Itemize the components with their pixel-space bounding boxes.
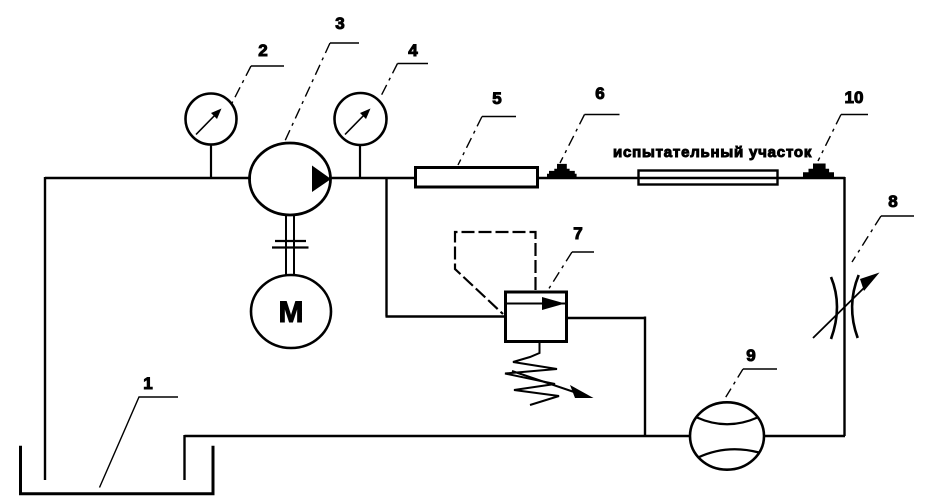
svg-text:6: 6	[595, 84, 604, 103]
svg-text:3: 3	[335, 14, 344, 33]
wire: return pipe into tank	[183, 435, 185, 480]
motor M	[251, 275, 331, 348]
svg-text:M: M	[279, 296, 304, 329]
flow meter 9	[690, 402, 764, 469]
node label 9	[724, 346, 777, 400]
node label 6	[560, 84, 620, 163]
wire: relief valve inlet	[386, 315, 505, 317]
node label 5	[458, 89, 516, 165]
wire: bottom return line	[185, 435, 692, 438]
shaft pump to motor	[272, 214, 309, 276]
wire: main top line pump to filter	[330, 177, 415, 180]
pressure gauge 2	[186, 94, 237, 179]
relief valve 7	[504, 292, 567, 342]
node label 8	[852, 192, 914, 262]
wire: main top line filter to right corner	[538, 177, 845, 180]
svg-text:9: 9	[746, 346, 755, 365]
svg-text:7: 7	[573, 224, 582, 243]
svg-text:5: 5	[492, 89, 501, 108]
svg-text:10: 10	[845, 88, 864, 107]
test section tube	[639, 171, 778, 185]
wire: branch down to relief valve	[385, 178, 387, 317]
throttle valve 8	[813, 273, 880, 340]
tank 1	[21, 446, 214, 494]
filter 5	[416, 168, 538, 188]
wire: left vertical pipe down to tank	[44, 177, 46, 480]
pressure gauge 4	[335, 93, 387, 178]
wire: main top line left of pump	[45, 177, 251, 180]
node label 7	[548, 224, 594, 290]
node label 4	[380, 41, 428, 98]
svg-text:1: 1	[143, 374, 152, 393]
wire: valve return down	[644, 317, 646, 438]
pressure tap 6	[547, 164, 577, 179]
spring of relief valve	[505, 342, 594, 405]
svg-text:8: 8	[888, 192, 897, 211]
pump 3	[250, 143, 332, 215]
pressure tap 10	[803, 164, 834, 179]
node label 3	[284, 14, 359, 143]
svg-text:2: 2	[258, 41, 267, 60]
svg-text:4: 4	[408, 41, 418, 60]
svg-text:испытательный участок: испытательный участок	[613, 144, 812, 161]
pilot dashed line	[455, 232, 536, 314]
wire: right vertical pipe	[843, 177, 845, 436]
wire: relief valve outlet	[566, 317, 645, 319]
node label 10	[818, 88, 868, 161]
node label 2	[232, 41, 284, 103]
